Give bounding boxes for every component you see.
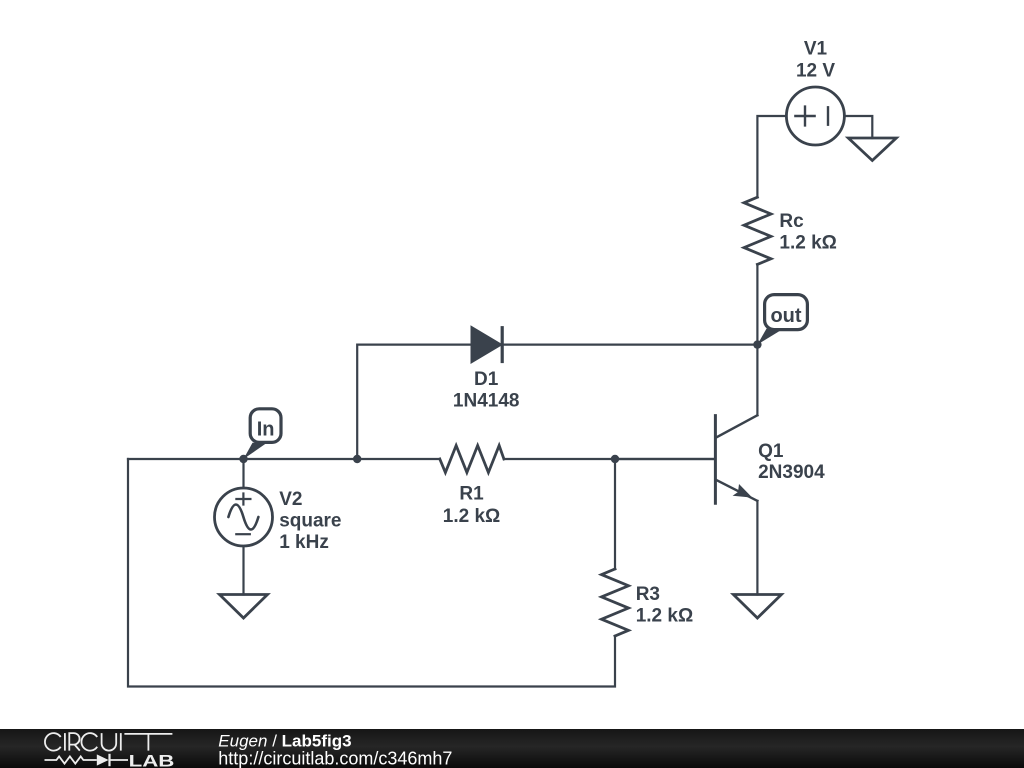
wire In to V2	[242, 459, 244, 488]
label R1 value	[443, 484, 501, 528]
svg-text:In: In	[257, 419, 275, 441]
logo squiggle resistor and diode	[45, 754, 129, 766]
label Rc value	[779, 211, 837, 254]
wire R3 top to rail	[614, 459, 616, 569]
svg-text:Q1: Q1	[758, 441, 784, 462]
svg-text:LAB: LAB	[129, 753, 175, 768]
svg-text:R1: R1	[459, 484, 484, 505]
wire Rc to collector	[756, 264, 758, 415]
svg-text:1 kHz: 1 kHz	[279, 532, 329, 553]
svg-text:D1: D1	[474, 369, 499, 390]
label V2 value	[279, 489, 341, 553]
svg-text:V1: V1	[804, 39, 828, 60]
node In junction	[239, 455, 247, 463]
diode D1	[472, 328, 502, 362]
label R3 value	[636, 584, 694, 627]
svg-text:1N4148: 1N4148	[453, 391, 520, 412]
wire emitter to ground	[756, 501, 758, 595]
svg-text:12 V: 12 V	[796, 61, 835, 82]
svg-text:square: square	[279, 511, 341, 532]
ground V2	[220, 595, 268, 619]
label D1 value	[453, 369, 520, 412]
svg-text:2N3904: 2N3904	[758, 462, 825, 483]
svg-text:1.2 kΩ: 1.2 kΩ	[779, 233, 837, 254]
wire input rail left	[128, 458, 440, 460]
node In flag	[244, 409, 282, 459]
svg-text:R3: R3	[636, 584, 660, 605]
voltage source V2	[215, 488, 273, 546]
wire V1 minus to ground	[844, 116, 872, 138]
ground V1	[848, 138, 896, 161]
voltage source V1	[786, 87, 844, 145]
ground Q1 emitter	[733, 595, 781, 619]
transistor Q1	[715, 415, 757, 503]
node R3 junction	[611, 455, 619, 463]
node D1 branch junction	[353, 455, 361, 463]
svg-text:V2: V2	[279, 489, 302, 510]
wire bottom loop	[128, 459, 615, 687]
svg-text:out: out	[770, 305, 801, 327]
logo CIRCUIT	[45, 733, 172, 751]
wire diode anode branch	[357, 345, 472, 459]
resistor R3	[602, 569, 629, 636]
svg-text:Eugen / Lab5fig3: Eugen / Lab5fig3	[218, 731, 351, 750]
resistor R1	[440, 446, 504, 473]
label V1 value	[796, 39, 835, 82]
resistor Rc	[744, 197, 771, 264]
wire V1 plus to Rc	[757, 116, 786, 197]
wire input rail right	[504, 458, 714, 460]
svg-text:1.2 kΩ: 1.2 kΩ	[636, 606, 694, 627]
svg-text:Rc: Rc	[779, 211, 804, 232]
wire base	[615, 458, 714, 460]
svg-text:1.2 kΩ: 1.2 kΩ	[443, 506, 501, 527]
node out flag	[757, 295, 807, 345]
wire V2 to ground	[242, 546, 244, 595]
wire diode cathode to out	[502, 344, 757, 346]
node out junction	[753, 340, 761, 348]
label Q1 value	[758, 441, 825, 483]
svg-text:http://circuitlab.com/c346mh7: http://circuitlab.com/c346mh7	[218, 749, 452, 768]
